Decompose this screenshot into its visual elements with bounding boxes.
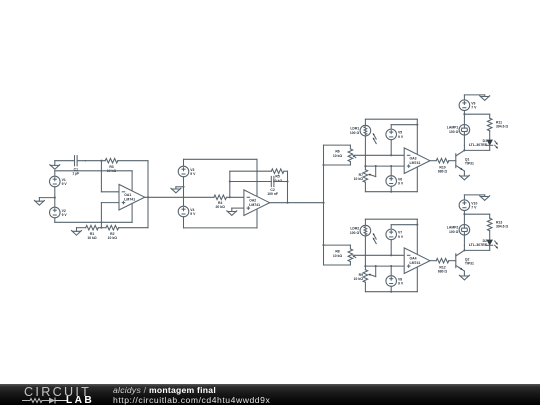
- ground: [459, 174, 469, 180]
- wire: [464, 114, 489, 118]
- LED D2: [469, 239, 498, 249]
- svg-text:9 V: 9 V: [190, 212, 196, 216]
- svg-text:100 Ω: 100 Ω: [449, 130, 459, 134]
- wire: [230, 170, 271, 172]
- svg-text:394.6 Ω: 394.6 Ω: [496, 125, 508, 129]
- wire: [416, 219, 418, 254]
- svg-text:394.6 Ω: 394.6 Ω: [496, 225, 508, 229]
- svg-text:LTL-307EE: LTL-307EE: [469, 243, 488, 247]
- ground: [480, 95, 490, 101]
- voltage source V5: [386, 129, 404, 140]
- resistor R1: [86, 225, 99, 240]
- ground: [50, 161, 60, 170]
- svg-text:10 kΩ: 10 kΩ: [354, 177, 364, 181]
- footer bar: [0, 384, 540, 405]
- svg-text:LM741: LM741: [410, 261, 421, 265]
- lamp LAMP2: [447, 225, 470, 236]
- resistor R5: [271, 169, 284, 183]
- wire: [489, 131, 491, 140]
- capacitor C1: [72, 156, 79, 176]
- wire: [416, 119, 418, 154]
- svg-text:10 kΩ: 10 kΩ: [108, 236, 118, 240]
- voltage source V1: [50, 176, 68, 187]
- wire: [463, 171, 465, 174]
- wire: [390, 266, 392, 292]
- op-amp OA1: [119, 184, 145, 210]
- wire: [184, 209, 258, 228]
- CircuitLab logo: [24, 385, 91, 399]
- svg-text:TIP31: TIP31: [465, 262, 474, 266]
- svg-text:680 Ω: 680 Ω: [438, 270, 448, 274]
- wire: [489, 231, 491, 240]
- wire: [324, 145, 351, 149]
- svg-text:10 kΩ: 10 kΩ: [333, 254, 343, 258]
- wire: [182, 177, 184, 206]
- voltage source V8: [386, 276, 404, 287]
- svg-text:100 Ω: 100 Ω: [350, 231, 360, 235]
- wire: [463, 245, 465, 251]
- wire: [365, 265, 404, 267]
- svg-text:10 kΩ: 10 kΩ: [87, 236, 97, 240]
- wire: [322, 145, 324, 265]
- wire: [463, 235, 465, 245]
- svg-text:20 kΩ: 20 kΩ: [216, 205, 226, 209]
- op-amp OA3: [404, 148, 430, 174]
- wire: [270, 202, 325, 204]
- wire: [364, 136, 366, 167]
- capacitor C2: [267, 176, 278, 196]
- wire: [229, 171, 231, 197]
- voltage source V2: [50, 207, 68, 218]
- wire: [119, 227, 148, 229]
- wire: [284, 171, 288, 203]
- svg-text:1 µF: 1 µF: [72, 172, 79, 176]
- wire: [449, 160, 456, 162]
- voltage source V4: [178, 206, 196, 217]
- transistor Q1: [456, 150, 474, 171]
- svg-text:9 V: 9 V: [398, 282, 404, 286]
- svg-text:9 V: 9 V: [398, 235, 404, 239]
- wire: [391, 124, 418, 130]
- wire: [364, 166, 366, 170]
- svg-text:10 kΩ: 10 kΩ: [354, 277, 364, 281]
- svg-text:100 Ω: 100 Ω: [350, 131, 360, 135]
- wire: [145, 196, 214, 198]
- title text: [113, 385, 216, 395]
- wire: [355, 254, 405, 256]
- ground: [480, 195, 490, 201]
- svg-text:9 V: 9 V: [62, 182, 68, 186]
- wire: [430, 260, 436, 262]
- wire: [463, 135, 465, 145]
- potentiometer R8: [333, 249, 356, 262]
- wire: [463, 213, 465, 224]
- transistor Q2: [456, 250, 474, 271]
- wire: [449, 260, 456, 262]
- wire: [55, 204, 132, 223]
- op-amp OA2: [244, 190, 270, 216]
- wire: [391, 224, 418, 230]
- ground: [34, 198, 44, 206]
- ground: [171, 187, 181, 193]
- wire: [464, 145, 489, 150]
- wire: [365, 182, 417, 192]
- wire: [324, 162, 351, 166]
- wire: [463, 113, 465, 124]
- resistor R2: [106, 225, 119, 240]
- lamp LAMP1: [447, 125, 470, 136]
- wire: [464, 245, 489, 250]
- potentiometer R6: [333, 149, 356, 162]
- wire: [324, 245, 351, 249]
- wire: [101, 161, 119, 192]
- wire: [365, 219, 417, 225]
- svg-text:OA1: OA1: [124, 193, 131, 197]
- resistor R11: [487, 118, 508, 131]
- ground: [72, 228, 82, 236]
- LED D1: [469, 139, 498, 149]
- wire: [176, 186, 184, 188]
- wire: [55, 171, 132, 191]
- wire: [464, 195, 484, 200]
- wire: [463, 271, 465, 274]
- voltage source V6: [386, 176, 404, 187]
- wire: [230, 181, 271, 183]
- wire: [416, 267, 418, 292]
- wire: [390, 240, 392, 256]
- wire: [365, 119, 417, 125]
- op-amp OA4: [404, 248, 430, 274]
- svg-text:10 kΩ: 10 kΩ: [333, 154, 343, 158]
- photoresistor LDR1: [350, 125, 376, 143]
- voltage source V7: [386, 229, 404, 240]
- wire: [416, 167, 418, 192]
- svg-text:9 V: 9 V: [398, 135, 404, 139]
- potentiometer R7: [354, 166, 376, 182]
- wire: [463, 111, 465, 115]
- wire: [430, 160, 436, 162]
- wire: [227, 196, 244, 198]
- photoresistor LDR2: [350, 225, 376, 243]
- resistor R10: [436, 158, 449, 173]
- wire: [365, 282, 417, 292]
- svg-text:9 V: 9 V: [62, 213, 68, 217]
- wire: [118, 161, 149, 228]
- svg-text:LTL-307EE: LTL-307EE: [469, 143, 488, 147]
- wire: [365, 165, 404, 167]
- voltage source V3: [178, 166, 196, 177]
- svg-text:7 V: 7 V: [471, 206, 477, 210]
- wire: [390, 166, 392, 192]
- ground: [459, 274, 469, 280]
- svg-text:680 Ω: 680 Ω: [438, 170, 448, 174]
- resistor R4: [214, 195, 227, 209]
- potentiometer R9: [354, 266, 376, 282]
- wire: [55, 160, 75, 162]
- wire: [98, 227, 106, 229]
- svg-text:7 V: 7 V: [471, 106, 477, 110]
- wire: [390, 140, 392, 156]
- wire: [463, 211, 465, 215]
- svg-text:9 V: 9 V: [190, 172, 196, 176]
- svg-text:OA3: OA3: [410, 157, 417, 161]
- wire: [77, 227, 86, 229]
- svg-text:OA4: OA4: [410, 257, 417, 261]
- wire: [274, 180, 289, 182]
- wire: [184, 159, 258, 196]
- wire: [232, 207, 244, 209]
- wire: [355, 154, 405, 156]
- wire: [364, 266, 366, 270]
- svg-text:100 nF: 100 nF: [267, 192, 278, 196]
- svg-text:100 Ω: 100 Ω: [449, 230, 459, 234]
- wire: [464, 95, 484, 100]
- wire: [364, 236, 366, 267]
- svg-text:LM741: LM741: [124, 198, 135, 202]
- node: [39, 187, 55, 207]
- wire: [77, 160, 105, 162]
- voltage source V10: [459, 200, 477, 211]
- voltage source V9: [459, 100, 477, 111]
- resistor R13: [487, 218, 508, 231]
- wire: [101, 203, 119, 228]
- wire: [324, 262, 351, 266]
- wire: [463, 145, 465, 151]
- svg-text:TIP31: TIP31: [465, 162, 474, 166]
- wire: [464, 214, 489, 218]
- ground: [227, 208, 237, 215]
- svg-text:LM741: LM741: [249, 203, 260, 207]
- svg-text:9 V: 9 V: [398, 182, 404, 186]
- resistor R3: [105, 158, 118, 173]
- svg-text:LM741: LM741: [410, 161, 421, 165]
- resistor R12: [436, 258, 449, 273]
- svg-text:OA2: OA2: [249, 199, 256, 203]
